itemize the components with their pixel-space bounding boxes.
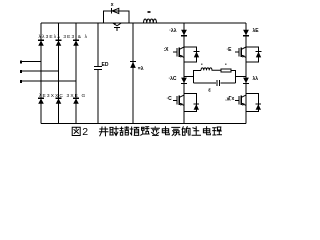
rectifier diode VD2 (top row) <box>56 40 62 46</box>
rectifier diode VD3 (top row) <box>73 40 79 46</box>
rectifier diode VD6 (bottom row) <box>73 98 79 104</box>
IGBT of switch V3 (bottom-left) <box>167 95 185 106</box>
caption glyph 变 <box>151 127 159 136</box>
label: load marks above tank <box>201 64 226 65</box>
rectifier diode VD5 (bottom row) <box>56 98 62 104</box>
caption glyph 联 <box>110 127 118 136</box>
anti-parallel diode loop of switch V3 (bottom-left) <box>184 94 199 112</box>
chopper anti-parallel diode <box>112 8 119 14</box>
series diode of switch V3 (bottom-left) <box>168 76 186 84</box>
rectifier diode VD4 (bottom row) <box>38 98 44 104</box>
caption glyph 图 <box>72 127 80 135</box>
caption glyph 的 <box>182 127 190 135</box>
svg-text:λλ: λλ <box>253 76 259 82</box>
wire: tank right stub <box>236 76 247 78</box>
svg-text:x: x <box>111 2 114 8</box>
svg-text:·λC: ·λC <box>168 76 176 82</box>
svg-text:ε: ε <box>208 88 211 94</box>
IGBT of switch V4 (bottom-right) <box>229 95 247 106</box>
capacitor C (tank) <box>208 80 219 94</box>
caption glyph 源 <box>172 127 180 135</box>
anti-parallel diode loop of switch V4 (bottom-right) <box>246 94 261 112</box>
wire: bottom DC bus <box>41 123 246 125</box>
caption glyph 谐 <box>120 127 129 135</box>
wire: tank bottom edge <box>194 82 236 84</box>
series diode of switch V1 (top-left) <box>169 28 187 36</box>
inductor Ld <box>144 11 157 23</box>
svg-text::X: :X <box>164 47 170 53</box>
caption glyph 振 <box>130 127 139 135</box>
caption glyph 电 <box>203 127 210 135</box>
caption glyph 电 <box>162 127 169 135</box>
svg-text:λλ3Ελλ 3Ε3 & λ: λλ3Ελλ 3Ε3 & λ <box>39 34 89 40</box>
caption glyph 路 <box>213 127 222 135</box>
wire: freewheel diode leg <box>132 23 134 124</box>
anti-parallel diode loop of switch V2 (top-right) <box>246 47 261 62</box>
svg-text:·C: ·C <box>167 96 173 102</box>
wire: tank left stub <box>184 76 194 78</box>
IGBT of switch V1 (top-left) <box>164 47 185 58</box>
wire: chopper bypass loop <box>103 11 129 23</box>
capacitor Cd (DC filter) <box>94 62 109 69</box>
wire: phase input line 2 <box>21 70 59 73</box>
svg-text:=λ: =λ <box>138 66 144 72</box>
wire: filter capacitor leg <box>97 23 99 124</box>
series diode of switch V4 (bottom-right) <box>243 76 258 84</box>
svg-text:ΕD: ΕD <box>102 62 109 68</box>
wire: inverter left leg <box>183 23 185 124</box>
caption glyph 逆 <box>141 127 149 135</box>
rectifier diode VD1 (top row) <box>38 40 44 46</box>
wire: rectifier leg 1 <box>40 23 42 124</box>
svg-text:.x.: .x. <box>225 97 231 103</box>
caption glyph 并 <box>99 127 108 136</box>
wire: phase input line 3 <box>21 80 76 83</box>
caption glyph 主 <box>192 127 200 135</box>
wire: phase input line 1 <box>21 60 41 63</box>
wire: rectifier leg 3 <box>75 23 77 124</box>
chopper IGBT VT <box>111 2 122 31</box>
svg-text:λΕ3ΧΧC 3ΧΕ G: λΕ3ΧΧC 3ΧΕ G <box>39 93 86 99</box>
svg-text:·λλ: ·λλ <box>169 28 176 34</box>
series diode of switch V2 (top-right) <box>243 28 259 36</box>
freewheeling diode VD7 <box>130 61 144 71</box>
IGBT of switch V2 (top-right) <box>227 47 247 58</box>
wire: rectifier leg 2 <box>58 23 60 124</box>
svg-text:λΕ: λΕ <box>253 28 260 34</box>
wire: tank frame <box>194 70 236 83</box>
svg-text:·Ε: ·Ε <box>227 47 233 53</box>
svg-text:2: 2 <box>82 126 88 138</box>
wire: top DC bus <box>41 22 246 24</box>
resistor R (coil resistance) <box>221 69 231 72</box>
anti-parallel diode loop of switch V1 (top-left) <box>184 47 199 62</box>
wire: inverter right leg <box>245 23 247 124</box>
inductor L (tank coil) <box>201 68 221 70</box>
